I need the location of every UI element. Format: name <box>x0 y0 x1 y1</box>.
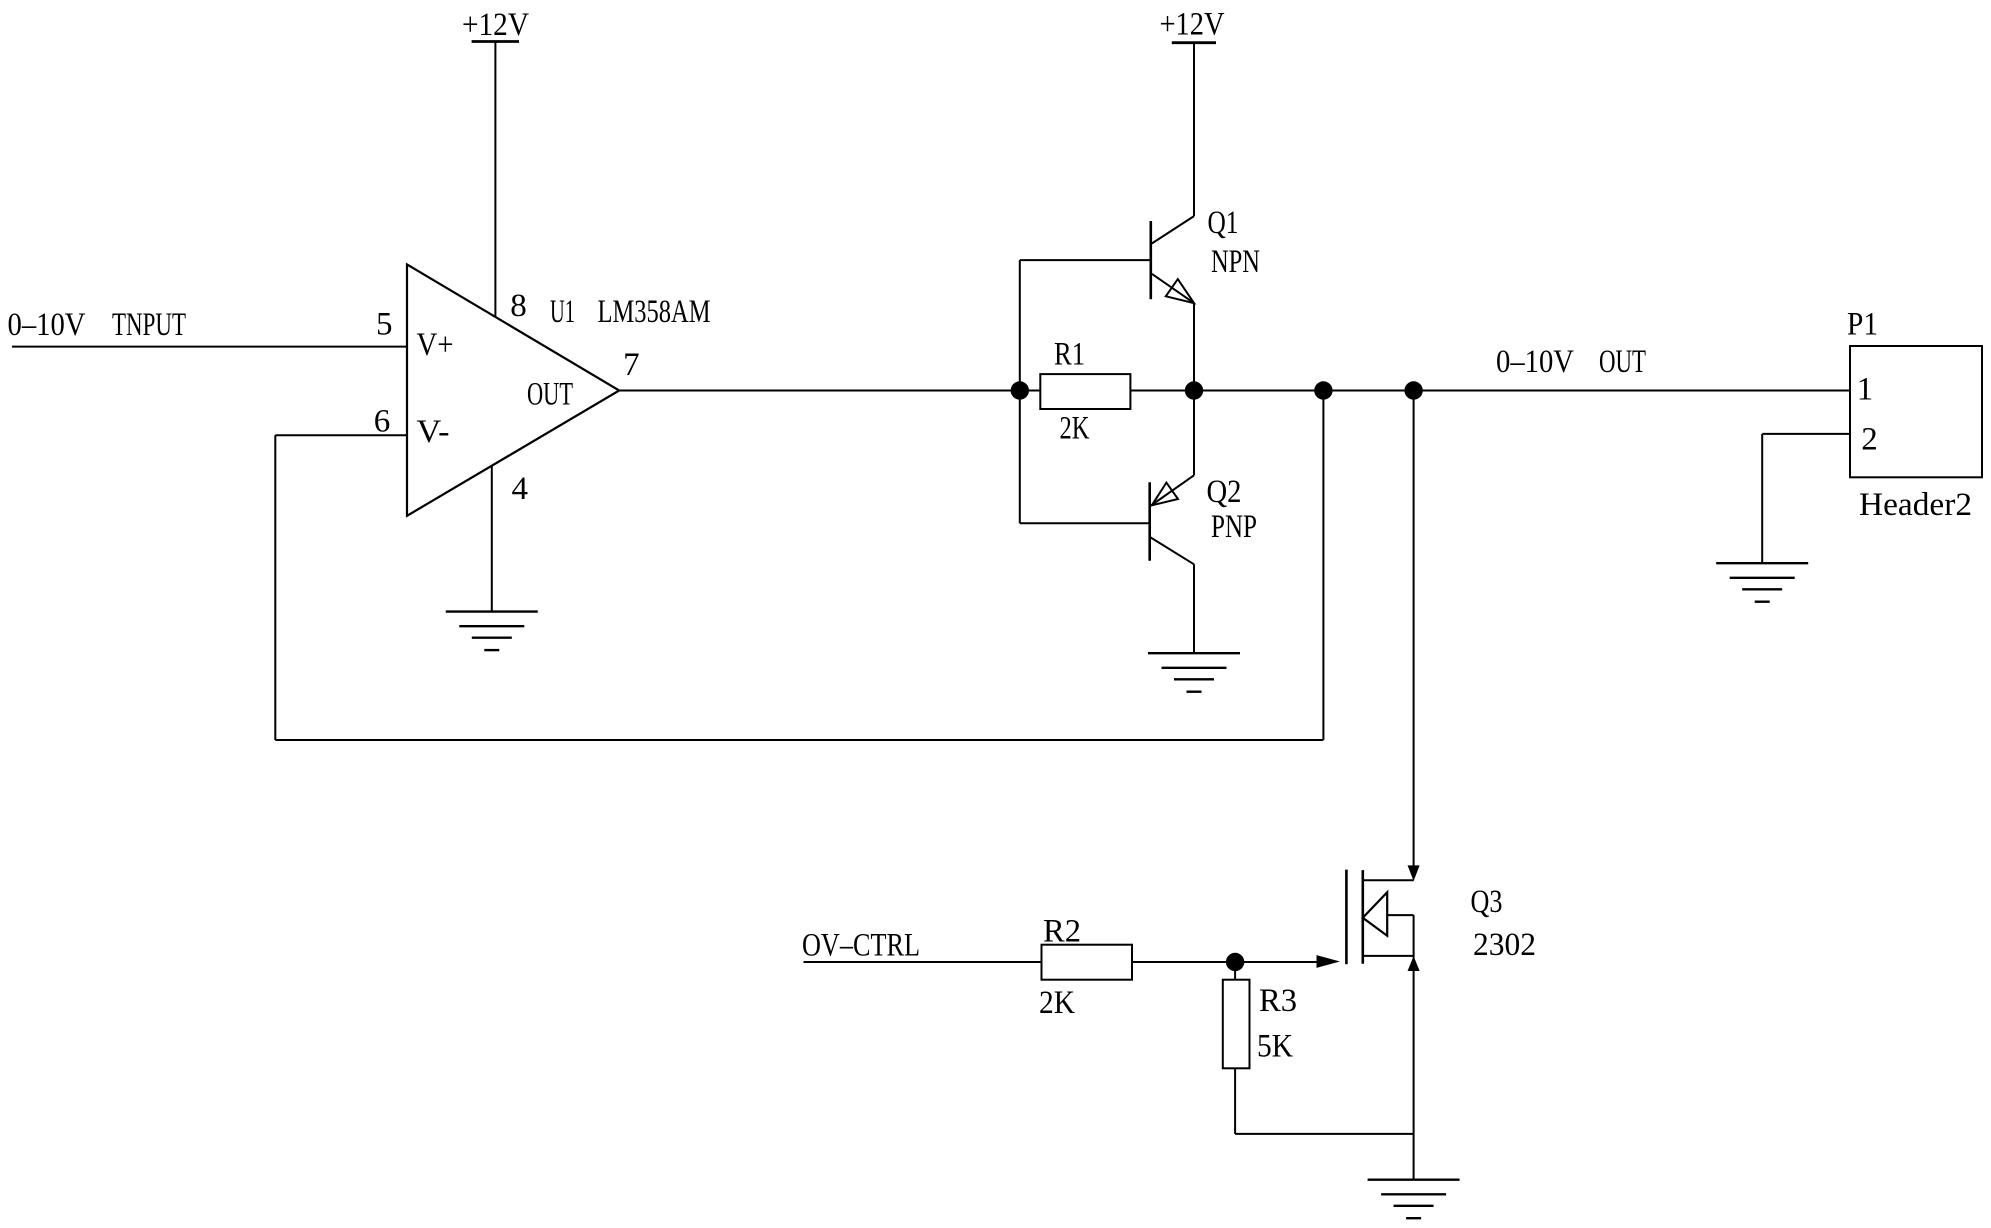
wire P1 pin 2 down <box>1761 434 1763 563</box>
Q2 emitter diagonal <box>1151 475 1194 505</box>
svg-text:OV–CTRL: OV–CTRL <box>802 928 920 964</box>
svg-text:7: 7 <box>623 347 640 383</box>
svg-text:Q3: Q3 <box>1471 884 1503 920</box>
resistor R3 <box>1223 980 1250 1069</box>
svg-text:LM358AM: LM358AM <box>598 294 711 330</box>
svg-text:5: 5 <box>376 307 393 343</box>
connector P1 box <box>1850 346 1982 477</box>
Q3 source stub <box>1363 955 1414 957</box>
ground below Q3 <box>1368 1180 1460 1219</box>
Q3 body stub <box>1387 914 1413 916</box>
Q1 emitter arrow <box>1166 279 1194 303</box>
svg-text:+12V: +12V <box>462 7 529 43</box>
wire OV-CTRL to R2 <box>804 961 1042 963</box>
svg-text:R3: R3 <box>1259 983 1297 1019</box>
wire R3 bottom down <box>1234 1068 1236 1134</box>
wire Q3 source down <box>1413 915 1415 1180</box>
wire node B to Q2 emitter <box>1193 391 1195 476</box>
wire pin 6 <box>275 434 407 436</box>
svg-text:2: 2 <box>1861 421 1878 457</box>
svg-text:R1: R1 <box>1054 336 1085 372</box>
svg-text:+12V: +12V <box>1160 7 1225 43</box>
svg-text:6: 6 <box>374 404 391 440</box>
svg-text:P1: P1 <box>1847 307 1878 343</box>
svg-text:OUT: OUT <box>527 377 573 413</box>
svg-text:OUT: OUT <box>1599 344 1646 380</box>
svg-text:0–10V: 0–10V <box>1496 344 1574 380</box>
wire Q1 base <box>1020 259 1151 261</box>
wire R3 to Q3 source <box>1235 1133 1414 1135</box>
svg-text:4: 4 <box>512 471 529 507</box>
ground below P1 <box>1716 563 1808 602</box>
svg-text:NPN: NPN <box>1211 244 1260 280</box>
wire feedback left vertical <box>274 435 276 740</box>
wire R2 to Q3 gate <box>1132 961 1318 963</box>
svg-text:Header2: Header2 <box>1859 487 1972 523</box>
transistor Q2 base bar <box>1148 482 1151 561</box>
node D junction dot (Q3 drain tap) <box>1404 381 1422 399</box>
svg-text:5K: 5K <box>1257 1029 1293 1065</box>
Q3 gate arrow <box>1317 956 1338 967</box>
wire feedback bottom horizontal <box>275 739 1323 741</box>
Q2 emitter arrow <box>1152 483 1178 506</box>
wire Q2 collector to ground <box>1193 564 1195 653</box>
Q3 drain arrow <box>1408 866 1419 880</box>
node C junction dot (feedback tap) <box>1314 381 1332 399</box>
wire +12V to U1 pin 8 <box>494 42 496 318</box>
wire node D down to Q3 drain <box>1413 391 1415 868</box>
power bar (left) <box>472 40 519 43</box>
wire R1 to P1 <box>1130 390 1850 392</box>
op-amp U1 triangle <box>407 264 619 515</box>
svg-text:Q2: Q2 <box>1207 474 1242 510</box>
resistor R1 <box>1040 374 1130 409</box>
svg-text:U1: U1 <box>550 294 575 330</box>
svg-text:Q1: Q1 <box>1208 205 1239 241</box>
wire U1 output to R1 <box>619 390 1040 392</box>
ground below U1 pin 4 <box>446 612 538 651</box>
power bar (right) <box>1172 41 1216 44</box>
svg-text:2302: 2302 <box>1473 927 1536 963</box>
ground below Q2 <box>1148 653 1240 692</box>
svg-text:2K: 2K <box>1039 985 1075 1021</box>
wire P1 pin 2 horizontal <box>1762 433 1850 435</box>
wire feedback right vertical <box>1322 391 1324 741</box>
node B junction dot <box>1185 381 1203 399</box>
Q3 channel bar <box>1362 870 1365 964</box>
svg-text:V-: V- <box>417 414 450 450</box>
svg-text:R2: R2 <box>1043 914 1081 950</box>
svg-text:0–10V: 0–10V <box>8 307 86 343</box>
Q2 collector diagonal <box>1150 537 1194 564</box>
svg-text:8: 8 <box>510 288 527 324</box>
svg-text:V+: V+ <box>417 327 454 363</box>
Q3 body diode arrow <box>1363 892 1387 935</box>
Q1 collector diagonal <box>1152 216 1194 243</box>
Q1 emitter diagonal <box>1152 274 1194 303</box>
wire base bracket vertical <box>1019 260 1021 523</box>
node A junction dot <box>1011 381 1029 399</box>
svg-text:1: 1 <box>1857 372 1874 408</box>
resistor R2 <box>1042 945 1133 980</box>
svg-text:PNP: PNP <box>1211 509 1257 545</box>
node E junction dot <box>1226 953 1244 971</box>
wire input to pin 5 <box>12 346 407 348</box>
Q3 gate bar <box>1345 870 1348 965</box>
transistor Q1 base bar <box>1150 221 1153 299</box>
wire Q1 emitter to node B <box>1193 303 1195 390</box>
Q3 source arrow <box>1408 958 1419 971</box>
wire node E to R3 <box>1234 962 1236 980</box>
wire +12V to Q1 collector <box>1193 43 1195 216</box>
svg-text:2K: 2K <box>1060 410 1090 446</box>
Q3 drain stub <box>1363 879 1414 881</box>
svg-text:TNPUT: TNPUT <box>112 307 186 343</box>
wire pin 4 to ground <box>491 465 493 611</box>
wire Q2 base <box>1020 522 1150 524</box>
